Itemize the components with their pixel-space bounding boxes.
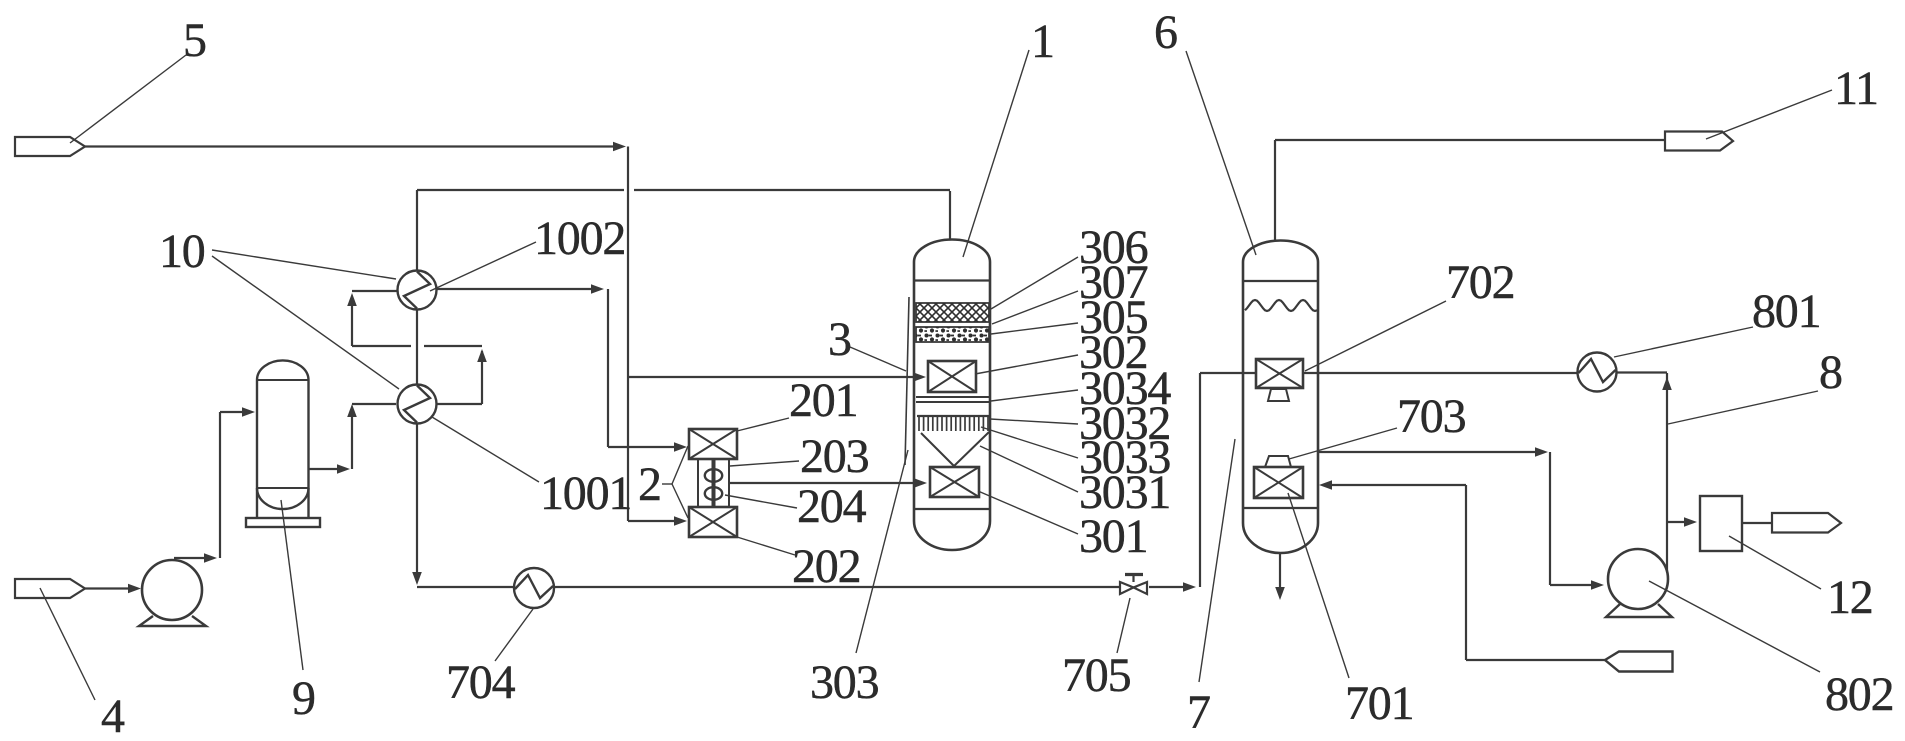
label 703	[1397, 390, 1466, 443]
label 11	[1834, 62, 1878, 115]
heat exchanger 1002	[398, 271, 437, 310]
mixer box 201	[689, 429, 737, 459]
svg-text:704: 704	[446, 656, 516, 709]
svg-text:1001: 1001	[540, 467, 631, 520]
pipe stream5 header	[85, 142, 628, 521]
stream flag 4	[15, 579, 85, 598]
label 3033	[1079, 431, 1170, 484]
label 3031	[1079, 466, 1170, 519]
leader 2 brace	[662, 446, 688, 518]
label 303	[810, 656, 879, 709]
svg-text:203: 203	[800, 430, 869, 483]
svg-text:12: 12	[1827, 571, 1873, 624]
label 1001	[540, 467, 631, 520]
label 2	[638, 458, 661, 511]
distributor box 701	[1254, 467, 1303, 498]
pipe riser 8	[1662, 373, 1672, 572]
valve 705	[1120, 575, 1147, 595]
label 306	[1079, 221, 1148, 274]
label 305	[1079, 291, 1148, 344]
packing V 3031	[921, 432, 989, 466]
column6 top nozzle	[1274, 140, 1276, 240]
distributor box 702	[1256, 359, 1303, 388]
svg-text:8: 8	[1819, 346, 1842, 399]
mixer box 202	[689, 507, 737, 537]
pipe box12 to flag12	[1742, 522, 1773, 524]
leader 702	[1305, 301, 1446, 371]
label 12	[1827, 571, 1873, 624]
label 307	[1079, 256, 1148, 309]
label 7	[1187, 686, 1210, 739]
product box 12	[1700, 496, 1742, 551]
column 1 shell	[914, 240, 990, 551]
label 3	[828, 313, 851, 366]
leader 705	[1117, 598, 1130, 653]
column 6 shell	[1243, 241, 1318, 554]
stream flag 12	[1772, 513, 1841, 533]
pipe steam to 701	[1319, 480, 1605, 660]
svg-text:801: 801	[1752, 285, 1820, 338]
svg-text:702: 702	[1446, 256, 1514, 309]
pipe flag4 to pump	[85, 584, 141, 593]
label 3032	[1079, 397, 1170, 450]
leader 802	[1649, 581, 1820, 672]
label 201	[789, 374, 857, 427]
pump P9 feed pump	[139, 560, 206, 626]
leader 1	[963, 50, 1029, 257]
leader 301	[978, 491, 1078, 534]
pipe pump to vessel 9	[174, 407, 255, 563]
leader 9	[281, 500, 303, 670]
leader 3031	[980, 446, 1078, 492]
leader 3032	[990, 419, 1078, 424]
leader 10 to 1002	[212, 250, 396, 279]
grid 3032 comb	[917, 416, 989, 431]
pipe 702 to 801	[1303, 372, 1578, 374]
svg-text:11: 11	[1834, 62, 1878, 115]
leader 10 to 1001	[212, 256, 399, 389]
pipe top header	[417, 189, 950, 191]
liquid level wave	[1245, 300, 1317, 311]
pipe bottom header	[417, 582, 1196, 592]
svg-text:5: 5	[183, 14, 206, 67]
heat exchanger 704	[514, 568, 554, 608]
leader 8	[1668, 391, 1818, 424]
pipe mixer to box301	[729, 478, 927, 488]
heat exchanger 801	[1578, 353, 1617, 392]
svg-text:3: 3	[828, 313, 851, 366]
leader 307	[992, 291, 1078, 324]
label 202	[792, 540, 860, 593]
svg-text:1: 1	[1031, 15, 1054, 68]
svg-text:301: 301	[1079, 510, 1147, 563]
distributor box 302	[928, 361, 976, 392]
pipe riser to column6	[1200, 373, 1255, 587]
leader 12	[1729, 536, 1821, 589]
leader 7	[1199, 439, 1235, 682]
label 302	[1079, 326, 1147, 379]
leader 201	[737, 418, 789, 431]
label 702	[1446, 256, 1514, 309]
svg-text:802: 802	[1825, 668, 1893, 721]
pipe tee to box12	[1667, 517, 1697, 527]
svg-text:204: 204	[797, 480, 867, 533]
leader 306	[991, 257, 1078, 309]
leader 4	[40, 588, 95, 700]
leader 303	[856, 450, 908, 653]
label 6	[1154, 6, 1177, 59]
label 8	[1819, 346, 1842, 399]
label 801	[1752, 285, 1820, 338]
leader 3	[850, 297, 909, 465]
label 705	[1062, 649, 1131, 702]
svg-text:6: 6	[1154, 6, 1177, 59]
pipe side draw	[1318, 447, 1604, 590]
pipe 801 to riser	[1616, 371, 1667, 373]
pipe vessel9 outlet to HX1001	[309, 404, 397, 474]
label 704	[446, 656, 516, 709]
column1 top nozzle	[949, 191, 951, 240]
svg-text:701: 701	[1345, 677, 1413, 730]
leader 11	[1706, 90, 1832, 139]
label 203	[800, 430, 869, 483]
label 701	[1345, 677, 1413, 730]
label 1	[1031, 15, 1054, 68]
label 4	[101, 690, 125, 741]
pipe branch to box302	[628, 372, 926, 382]
svg-text:4: 4	[101, 690, 125, 741]
leader 1002	[430, 242, 536, 291]
label 204	[797, 480, 867, 533]
pipe 1002 to mixer 201	[436, 284, 687, 452]
leader 801	[1614, 327, 1753, 357]
funnel under 702	[1268, 389, 1289, 401]
svg-text:303: 303	[810, 656, 879, 709]
svg-text:201: 201	[789, 374, 857, 427]
leader 3033	[981, 427, 1078, 458]
stream flag 5	[15, 137, 85, 156]
label 9	[292, 672, 315, 725]
label 1002	[534, 212, 625, 265]
leader 203	[730, 461, 799, 466]
column6 bottom outlet	[1275, 553, 1285, 600]
leader 704	[495, 609, 533, 661]
distributor box 301	[930, 467, 979, 497]
svg-text:705: 705	[1062, 649, 1131, 702]
leader 3034	[991, 390, 1078, 401]
svg-text:9: 9	[292, 672, 315, 725]
stream flag steam	[1605, 652, 1673, 672]
label 301	[1079, 510, 1147, 563]
pipe overhead to flag11	[1275, 139, 1665, 141]
leader 5	[70, 55, 186, 143]
packing band 305	[916, 327, 989, 342]
pipe HX vertical	[412, 190, 422, 585]
stream flag 11	[1665, 132, 1733, 151]
collector hat 703	[1265, 456, 1291, 467]
leader 302	[975, 355, 1078, 374]
leader 701	[1288, 493, 1349, 678]
leader 204	[725, 495, 797, 508]
leader 6	[1186, 51, 1256, 255]
leader 305	[991, 323, 1078, 334]
label 3034	[1079, 362, 1171, 415]
label 802	[1825, 668, 1893, 721]
leader 202	[737, 537, 795, 555]
tray 3034	[916, 397, 989, 402]
pump 802	[1606, 549, 1672, 617]
svg-text:202: 202	[792, 540, 860, 593]
heat exchanger 1001	[398, 385, 437, 424]
metering unit 203/204 shaft	[698, 459, 729, 507]
vessel 9 shell	[246, 360, 320, 527]
svg-text:10: 10	[159, 225, 205, 278]
label 5	[183, 14, 206, 67]
packing band 306	[916, 303, 989, 322]
svg-text:7: 7	[1187, 686, 1210, 739]
pipe to mixer 202	[628, 516, 687, 526]
svg-text:2: 2	[638, 458, 661, 511]
label 10	[159, 225, 205, 278]
svg-text:1002: 1002	[534, 212, 625, 265]
leader 703	[1289, 428, 1397, 459]
pipe 1001 shell to 1002 shell	[347, 291, 487, 404]
leader 1001	[432, 417, 539, 482]
svg-text:703: 703	[1397, 390, 1466, 443]
